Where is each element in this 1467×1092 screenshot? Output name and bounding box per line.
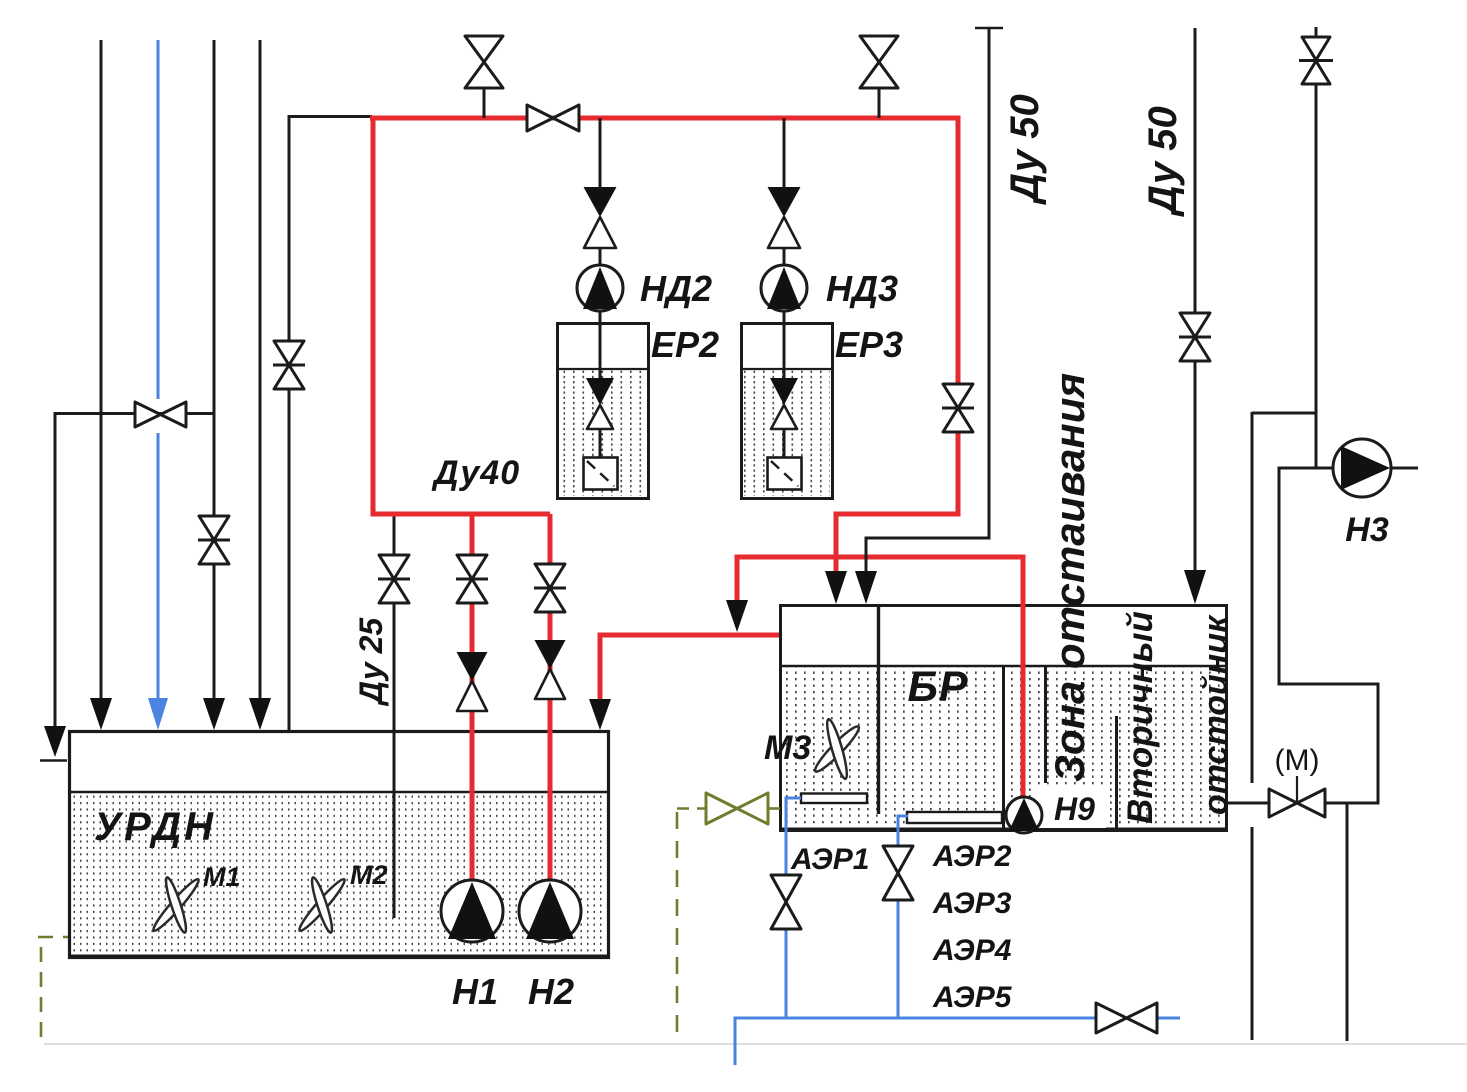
mixer М1: [150, 876, 202, 934]
valve top-left with stem: [465, 36, 503, 118]
pipe: Ду25 dip line: [393, 515, 396, 918]
valve on red right riser: [942, 384, 974, 432]
mixer М3: [812, 718, 863, 780]
bottom faint border line: [44, 1043, 1467, 1045]
pump Н3: [1333, 439, 1418, 497]
pipe: inlet line B (blue): [157, 40, 160, 699]
pump НД2: [577, 265, 623, 311]
red pipe: right riser: [956, 116, 961, 516]
olive drain vertical right: [676, 812, 679, 1034]
pipe H3 supply line: [1252, 84, 1316, 468]
blue pipe АЭР1: [786, 798, 801, 875]
svg-text:УРДН: УРДН: [94, 805, 216, 849]
red pipe: H1 riser: [470, 514, 475, 882]
tank ЕР2: [558, 324, 649, 499]
red pipe: left riser: [371, 116, 376, 516]
valve top-right with stem: [860, 36, 898, 118]
БР divider wall: [877, 605, 880, 814]
red pipe: to БР inlet: [836, 514, 961, 573]
valve on H2 riser: [534, 564, 566, 612]
pump НД3: [761, 265, 807, 311]
svg-text:Н3: Н3: [1345, 511, 1389, 549]
settling zone wall: [1002, 666, 1005, 829]
svg-text:АЭР1: АЭР1: [790, 843, 869, 876]
valve (М) motorized: [1269, 776, 1325, 817]
check valve on H1 riser: [457, 652, 488, 681]
olive drain vertical left: [40, 947, 43, 1038]
pipe: line E to red header: [289, 117, 372, 731]
check valve in ЕР2: [586, 378, 614, 405]
pipe: inlet line A: [100, 40, 103, 699]
svg-text:НД3: НД3: [826, 268, 898, 309]
svg-text:М1: М1: [203, 862, 241, 892]
arrow red into БР: [825, 571, 847, 604]
valve АЭР1: [771, 875, 801, 929]
svg-text:Ду 25: Ду 25: [353, 617, 389, 707]
valve on left branch (horizontal): [135, 402, 186, 427]
clarifier outlet pipe: [1226, 802, 1270, 805]
valve on H1 riser: [456, 555, 488, 603]
svg-text:АЭР3: АЭР3: [932, 887, 1012, 920]
red pipe: top header: [370, 116, 961, 121]
olive drain horizontal: [677, 807, 706, 810]
foot valve square ЕР3: [768, 458, 802, 490]
svg-text:отстойник: отстойник: [1197, 614, 1235, 815]
svg-text:Ду 50: Ду 50: [1003, 94, 1047, 205]
pipe drop 1b: [1251, 827, 1254, 1040]
foot valve square ЕР2: [584, 458, 618, 490]
valve on red top header: [527, 105, 579, 131]
arrow into УРДН: [249, 698, 271, 730]
pipe Ду50 line 1: [866, 28, 1003, 573]
pipe: branch with valve to УРДН left: [55, 414, 214, 728]
svg-text:Н9: Н9: [1054, 791, 1095, 827]
svg-text:Ду 50: Ду 50: [1141, 106, 1185, 217]
blue air header: [735, 1018, 1180, 1065]
arrow red into УРДН: [589, 699, 611, 730]
svg-text:ЕР2: ЕР2: [651, 324, 719, 365]
red pipe: H9 discharge: [737, 557, 1023, 798]
mixer М2: [296, 876, 348, 934]
svg-text:Зона отстаивания: Зона отстаивания: [1046, 373, 1093, 782]
НД3 dip pipe in ЕР3: [783, 311, 786, 379]
olive drain dashed into УРДН: [38, 936, 68, 939]
svg-text:ЕР3: ЕР3: [835, 324, 903, 365]
pump Н1: [441, 880, 503, 942]
check valve НД3: [768, 187, 801, 217]
svg-text:НД2: НД2: [640, 268, 712, 309]
svg-text:(М): (М): [1275, 744, 1320, 777]
pump Н9: [1006, 797, 1042, 833]
valve on Ду25 line: [378, 555, 410, 603]
svg-text:Н1: Н1: [452, 971, 498, 1012]
svg-text:М2: М2: [350, 860, 388, 890]
valve on air header: [1096, 1003, 1157, 1033]
arrow left inlet: [44, 726, 66, 757]
svg-text:АЭР4: АЭР4: [932, 934, 1012, 967]
blue arrow into УРДН: [148, 698, 168, 730]
check valve in ЕР3: [770, 378, 798, 405]
tank ЕР3: [742, 324, 833, 499]
olive valve: [706, 793, 780, 824]
svg-text:М3: М3: [764, 729, 811, 767]
arrow into отстойник: [1184, 570, 1206, 604]
red pipe: pump discharge header: [371, 512, 551, 517]
valve on line E: [273, 341, 305, 389]
valve top H3 line: [1299, 27, 1333, 84]
pipe: inlet line D: [259, 40, 262, 699]
svg-text:Ду40: Ду40: [431, 454, 520, 492]
check valve НД2: [584, 187, 617, 217]
red pipe: H2 riser: [548, 514, 553, 882]
pipe drop 1: [1251, 412, 1254, 783]
НД3 branch pipe: [783, 118, 786, 188]
НД2 dip pipe in ЕР2: [599, 311, 602, 379]
tank УРДН: [69, 732, 610, 958]
arrow red junction: [726, 600, 748, 632]
svg-text:АЭР5: АЭР5: [932, 981, 1013, 1014]
pipe drop 2: [1346, 803, 1349, 1041]
baffle 2: [1115, 716, 1118, 829]
check valve on H2 riser: [535, 640, 566, 669]
svg-text:Вторичный: Вторичный: [1121, 611, 1160, 824]
aerator bar 2: [907, 812, 1002, 823]
baffle 1: [1044, 666, 1047, 783]
pump Н2: [519, 880, 581, 942]
red pipe: БР drain to УРДН: [600, 635, 779, 700]
aerator bar 1: [801, 794, 867, 804]
arrow into УРДН: [203, 698, 225, 730]
valve АЭР2: [883, 846, 913, 900]
arrow into УРДН: [90, 698, 112, 730]
svg-text:БР: БР: [907, 663, 968, 711]
arrow into БР: [855, 571, 877, 604]
blue pipe АЭР2: [898, 816, 908, 847]
valve on Ду50 line 2: [1179, 313, 1211, 361]
discharge tick: [40, 759, 67, 762]
НД2 branch pipe: [599, 118, 602, 188]
valve on line C: [198, 516, 230, 564]
svg-text:АЭР2: АЭР2: [932, 840, 1012, 873]
tank БР + вторичный отстойник: [780, 606, 1227, 831]
pipe: inlet line C: [213, 40, 216, 699]
svg-text:Н2: Н2: [528, 971, 574, 1012]
pipe Ду50 line 2: [1194, 28, 1197, 572]
pipe from valve to H3 riser: [1279, 468, 1378, 803]
